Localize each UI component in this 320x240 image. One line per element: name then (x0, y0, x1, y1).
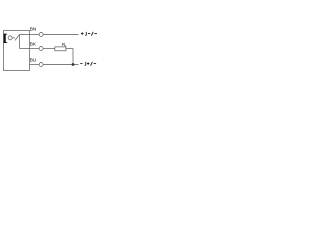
svg-text:BK: BK (30, 42, 37, 47)
svg-text:BU: BU (30, 58, 37, 63)
svg-text:BN: BN (30, 27, 37, 32)
svg-text:L: L (65, 44, 67, 48)
